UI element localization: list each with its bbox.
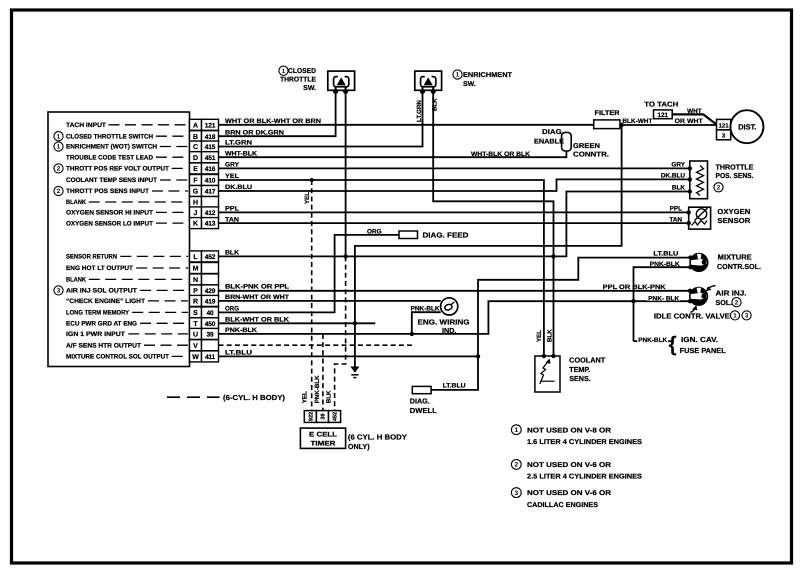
svg-text:450: 450	[205, 321, 216, 328]
svg-text:1: 1	[57, 133, 61, 140]
svg-text:S: S	[193, 310, 198, 317]
wire D WHT-BLK to green connector	[219, 151, 567, 157]
svg-text:B: B	[193, 134, 198, 141]
svg-text:IGN. CAV.: IGN. CAV.	[681, 335, 718, 344]
svg-text:452: 452	[333, 412, 339, 421]
wire G DK.BLU to throttle pos sensor	[219, 179, 690, 191]
svg-text:C: C	[193, 144, 198, 151]
svg-text:A: A	[193, 122, 198, 129]
svg-text:PPL: PPL	[670, 206, 683, 213]
svg-text:2.5 LITER 4 CYLINDER ENGINES: 2.5 LITER 4 CYLINDER ENGINES	[527, 474, 642, 481]
wire mixture solenoid PNK-BLK	[634, 267, 691, 341]
arrow to air inj solenoid	[708, 286, 715, 289]
svg-text:1.6 LITER 4 CYLINDER ENGINES: 1.6 LITER 4 CYLINDER ENGINES	[527, 439, 642, 446]
svg-text:PPL OR BLK-PNK: PPL OR BLK-PNK	[603, 284, 666, 291]
svg-text:SOL.: SOL.	[716, 298, 733, 307]
pin F row: COOLANT TEMP SENS INPUT	[190, 175, 202, 186]
svg-text:417: 417	[205, 189, 216, 196]
svg-text:NOT USED ON V-6 OR: NOT USED ON V-6 OR	[527, 490, 611, 497]
svg-text:BLK-PNK OR PPL: BLK-PNK OR PPL	[225, 284, 289, 291]
pin D row: TROUBLE CODE TEST LEAD	[190, 152, 202, 163]
svg-text:J: J	[194, 210, 198, 217]
idle contr valve label with arrow	[691, 309, 696, 313]
svg-text:121: 121	[657, 112, 668, 119]
wire T BLK-WHT ECU power ground	[219, 322, 376, 324]
svg-text:D: D	[193, 155, 198, 162]
svg-text:A/F SENS HTR OUTPUT: A/F SENS HTR OUTPUT	[66, 342, 141, 349]
wire E GRY to throttle pos sensor	[219, 167, 690, 169]
pin C row: ENRICHMENT (WOT) SWITCH	[190, 141, 202, 152]
svg-text:BLK: BLK	[432, 98, 439, 111]
wire PNK-BLK dashed to E cell timer pin 39	[322, 334, 324, 411]
svg-text:{: {	[669, 333, 677, 356]
svg-text:TIMER: TIMER	[311, 441, 336, 448]
svg-text:1: 1	[514, 427, 518, 434]
svg-text:V: V	[193, 343, 198, 350]
wire closed throttle switch BLK return	[345, 91, 347, 256]
wire L BLK sensor return to TPS	[219, 192, 690, 257]
svg-text:YEL: YEL	[302, 391, 309, 403]
svg-text:LONG TERM MEMORY: LONG TERM MEMORY	[66, 310, 130, 317]
wire lamp PNK-BLK branch	[412, 312, 441, 334]
svg-text:2: 2	[57, 166, 61, 173]
label PNK-BLK (air inj)	[647, 294, 680, 301]
junction diag dwell tap	[476, 354, 480, 358]
svg-text:2: 2	[717, 185, 721, 192]
legend 6-cyl H body dashed	[167, 396, 220, 398]
svg-text:AIR INJ SOL OUTPUT: AIR INJ SOL OUTPUT	[66, 288, 137, 295]
wire filter tap BLK-WHT to ground	[355, 125, 622, 367]
E cell timer pin connector 922/39/452	[304, 411, 316, 423]
junction lamp branch on pin U wire	[410, 332, 414, 336]
svg-text:OXYGEN SENSOR HI INPUT: OXYGEN SENSOR HI INPUT	[66, 210, 153, 217]
svg-text:FILTER: FILTER	[595, 110, 620, 117]
svg-text:M: M	[193, 266, 199, 273]
svg-text:451: 451	[205, 155, 216, 162]
mixture control solenoid	[690, 254, 708, 272]
wire F YEL to coolant temp sensor	[219, 180, 544, 356]
svg-text:3: 3	[57, 288, 61, 295]
svg-text:ONLY): ONLY)	[348, 442, 370, 451]
svg-text:SENSOR: SENSOR	[717, 216, 751, 225]
ground symbol	[350, 367, 359, 373]
ECU connector table outline	[48, 112, 190, 367]
svg-text:SENS.: SENS.	[569, 374, 591, 383]
svg-text:418: 418	[205, 134, 216, 141]
junction closed throttle BLK / sensor return	[343, 254, 347, 258]
svg-text:BLK: BLK	[672, 185, 686, 192]
wire enrichment switch BLK return	[433, 91, 553, 356]
note 1	[511, 425, 521, 435]
svg-text:2: 2	[514, 462, 518, 469]
svg-text:W: W	[192, 354, 199, 361]
svg-text:IND.: IND.	[442, 326, 456, 335]
svg-text:BLK: BLK	[547, 329, 554, 342]
svg-text:413: 413	[205, 221, 216, 228]
pin P row: AIR INJ SOL OUTPUT	[190, 285, 202, 296]
throttle position sensor	[690, 161, 708, 199]
label PNK-BLK (fuse panel)	[637, 336, 668, 343]
wire K TAN to oxygen sensor	[219, 222, 689, 224]
svg-text:DIST.: DIST.	[738, 122, 756, 131]
svg-text:GRY: GRY	[671, 162, 685, 169]
pin B row: CLOSED THROTTLE SWITCH	[190, 131, 202, 142]
closed throttle switch	[328, 71, 355, 90]
distributor DIST.	[730, 110, 763, 143]
label enrichment sw	[453, 70, 462, 79]
wire B BRN to closed throttle switch	[219, 91, 336, 136]
svg-text:SENSOR RETURN: SENSOR RETURN	[66, 254, 117, 261]
svg-text:R: R	[193, 299, 198, 306]
wire P BLK-PNK to air inj solenoid	[219, 290, 690, 292]
svg-text:452: 452	[205, 254, 216, 261]
wire R BRN-WHT to eng wiring indicator	[219, 300, 441, 302]
svg-text:PNK-BLK: PNK-BLK	[650, 261, 680, 268]
wire A BLK-WHT filter to distributor	[620, 124, 717, 126]
svg-text:THROTT POS SENS INPUT: THROTT POS SENS INPUT	[66, 188, 149, 195]
svg-text:BLANK: BLANK	[66, 199, 86, 206]
pin J row: OXYGEN SENSOR HI INPUT	[190, 207, 202, 218]
junction PNK-BLK distribution	[631, 299, 635, 303]
svg-text:DWELL: DWELL	[410, 406, 438, 415]
svg-text:TO TACH: TO TACH	[644, 102, 678, 109]
svg-text:PNK- BLK: PNK- BLK	[648, 295, 679, 302]
svg-text:SW.: SW.	[463, 81, 476, 88]
wire C LT.GRN to enrichment switch	[219, 91, 423, 146]
svg-text:DIAG. FEED: DIAG. FEED	[423, 231, 469, 240]
svg-text:TAN: TAN	[669, 216, 682, 223]
svg-text:CONTR.SOL.: CONTR.SOL.	[717, 262, 761, 271]
pin W row: MIXTURE CONTROL SOL OUTPUT	[190, 351, 202, 362]
wire W LT.BLU mixture control sol output	[219, 258, 691, 357]
svg-text:(6-CYL. H BODY): (6-CYL. H BODY)	[223, 393, 286, 402]
to tach connector 121	[654, 110, 673, 119]
svg-text:419: 419	[205, 299, 216, 306]
svg-text:(6 CYL. H BODY: (6 CYL. H BODY	[348, 433, 407, 442]
svg-text:LT.GRN: LT.GRN	[416, 100, 423, 122]
svg-text:416: 416	[205, 166, 216, 173]
svg-text:COOLANT: COOLANT	[569, 356, 606, 365]
wire to tach WHT	[672, 114, 716, 124]
svg-text:IDLE CONTR. VALVE: IDLE CONTR. VALVE	[654, 312, 730, 321]
svg-text:415: 415	[205, 144, 216, 151]
svg-text:412: 412	[205, 210, 216, 217]
svg-text:F: F	[193, 178, 198, 185]
svg-text:AIR INJ.: AIR INJ.	[716, 289, 747, 298]
svg-text:L: L	[193, 254, 198, 261]
svg-text:ENG HOT LT OUTPUT: ENG HOT LT OUTPUT	[66, 265, 133, 272]
svg-text:POS. SENS.: POS. SENS.	[716, 171, 754, 180]
svg-text:CONNTR.: CONNTR.	[573, 152, 609, 159]
svg-text:U: U	[193, 332, 198, 339]
svg-text:IGN 1 PWR INPUT: IGN 1 PWR INPUT	[66, 331, 125, 338]
svg-text:OXYGEN: OXYGEN	[717, 207, 750, 216]
wire diag dwell branch LT.BLU	[431, 356, 478, 390]
diag feed connector	[399, 231, 418, 239]
svg-text:1: 1	[282, 68, 286, 75]
svg-text:PNK-BLK: PNK-BLK	[314, 375, 321, 403]
svg-text:1: 1	[733, 313, 737, 320]
pin V row: A/F SENS HTR OUTPUT	[190, 340, 202, 351]
filter	[594, 120, 620, 129]
pin U row: IGN 1 PWR INPUT	[190, 328, 202, 339]
svg-text:DK.BLU: DK.BLU	[661, 173, 686, 180]
svg-text:OR WHT: OR WHT	[675, 118, 703, 125]
svg-text:922: 922	[309, 412, 315, 421]
pin E row: THROTT POS REF VOLT OUTPUT	[190, 163, 202, 174]
svg-text:CADILLAC ENGINES: CADILLAC ENGINES	[527, 502, 598, 509]
svg-text:121: 121	[719, 123, 730, 130]
svg-text:PNK-BLK: PNK-BLK	[638, 337, 667, 344]
svg-text:429: 429	[205, 288, 216, 295]
wire BLK dashed to E cell timer pin 452	[335, 256, 346, 410]
junction enrichment BLK / sensor return	[551, 254, 555, 258]
green connector (diag enable)	[562, 132, 572, 151]
pin A row: TACH INPUT	[190, 119, 202, 130]
svg-text:DIAG.: DIAG.	[542, 129, 564, 136]
svg-text:CLOSED THROTTLE SWITCH: CLOSED THROTTLE SWITCH	[66, 133, 153, 140]
note 3	[511, 488, 521, 498]
distributor connector 121/3	[717, 119, 731, 129]
svg-text:T: T	[193, 321, 198, 328]
svg-text:E: E	[193, 166, 198, 173]
oxygen sensor	[689, 207, 711, 229]
junction filter output	[619, 123, 623, 127]
svg-text:GREEN: GREEN	[573, 143, 600, 150]
svg-text:LT.BLU: LT.BLU	[653, 250, 678, 257]
svg-text:P: P	[193, 288, 198, 295]
svg-text:ENRICHMENT: ENRICHMENT	[463, 72, 513, 79]
svg-text:MIXTURE CONTROL SOL OUTPUT: MIXTURE CONTROL SOL OUTPUT	[66, 354, 169, 361]
svg-text:TACH INPUT: TACH INPUT	[66, 122, 106, 129]
svg-text:CLOSED: CLOSED	[288, 68, 316, 75]
svg-text:YEL: YEL	[304, 192, 311, 204]
svg-text:TROUBLE CODE TEST LEAD: TROUBLE CODE TEST LEAD	[66, 154, 153, 161]
svg-text:BLK-WHT: BLK-WHT	[622, 118, 652, 125]
air injection solenoid	[690, 288, 708, 306]
svg-text:YEL: YEL	[536, 330, 543, 342]
svg-text:121: 121	[205, 122, 216, 129]
svg-text:LT.BLU: LT.BLU	[443, 383, 466, 390]
pin K row: OXYGEN SENSOR LO IMPUT	[190, 218, 202, 229]
svg-text:COOLANT TEMP SENS INPUT: COOLANT TEMP SENS INPUT	[66, 177, 157, 184]
svg-text:SW.: SW.	[303, 85, 316, 92]
pin M row: ENG HOT LT OUTPUT	[190, 263, 202, 274]
svg-text:411: 411	[205, 354, 216, 361]
svg-text:TEMP.: TEMP.	[569, 365, 590, 374]
svg-text:FUSE PANEL: FUSE PANEL	[680, 346, 727, 355]
wire A WHT tach lead to filter	[219, 124, 594, 126]
pin H row: BLANK	[190, 197, 202, 208]
svg-text:ECU PWR GRD AT ENG: ECU PWR GRD AT ENG	[66, 321, 137, 328]
svg-text:1: 1	[57, 144, 61, 151]
svg-text:NOT USED ON V-6 OR: NOT USED ON V-6 OR	[527, 462, 611, 469]
junction YEL dashed on pin F wire	[310, 178, 314, 182]
pin R row: “CHECK ENGINE” LIGHT	[190, 295, 202, 306]
wire J PPL to oxygen sensor	[219, 211, 689, 213]
svg-text:G: G	[193, 189, 199, 196]
svg-text:THROTTLE: THROTTLE	[716, 163, 754, 172]
svg-text:“CHECK ENGINE” LIGHT: “CHECK ENGINE” LIGHT	[66, 298, 145, 305]
svg-text:2: 2	[57, 188, 61, 195]
svg-text:ORG: ORG	[367, 228, 382, 235]
svg-text:1: 1	[456, 72, 460, 79]
pin N row: BLANK	[190, 274, 202, 285]
label closed throttle sw	[279, 66, 288, 75]
svg-text:BLK: BLK	[326, 390, 333, 403]
coolant temp sensor	[535, 356, 560, 392]
svg-text:NOT USED ON V-8 OR: NOT USED ON V-8 OR	[527, 427, 611, 434]
svg-text:H: H	[193, 200, 198, 207]
svg-text:2: 2	[735, 299, 739, 306]
pin T row: ECU PWR GRD AT ENG	[190, 318, 202, 329]
svg-text:THROTT POS REF VOLT OUTPUT: THROTT POS REF VOLT OUTPUT	[66, 166, 169, 173]
svg-text:DIAG.: DIAG.	[410, 396, 430, 405]
svg-text:K: K	[193, 221, 198, 228]
svg-text:N: N	[193, 277, 198, 284]
note 2	[511, 460, 521, 470]
pin S row: LONG TERM MEMORY	[190, 307, 202, 318]
svg-text:40: 40	[207, 310, 214, 317]
junction ground line / pin T wire	[353, 321, 357, 325]
svg-text:39: 39	[321, 413, 327, 419]
pin L row: SENSOR RETURN	[190, 251, 202, 262]
wire S ORG to diag feed	[219, 235, 400, 313]
svg-text:MIXTURE: MIXTURE	[718, 252, 752, 261]
wire V A/F sensor heater (dashed)	[219, 344, 412, 346]
svg-text:WHT-BLK OR BLK: WHT-BLK OR BLK	[471, 151, 530, 158]
svg-text:OXYGEN SENSOR LO IMPUT: OXYGEN SENSOR LO IMPUT	[66, 220, 153, 227]
pin G row: THROTT POS SENS INPUT	[190, 186, 202, 197]
svg-text:3: 3	[514, 490, 518, 497]
svg-text:3: 3	[745, 313, 749, 320]
svg-text:THROTTLE: THROTTLE	[280, 77, 316, 84]
svg-text:WHT: WHT	[687, 108, 702, 115]
svg-text:410: 410	[205, 178, 216, 185]
svg-text:PNK-BLK: PNK-BLK	[411, 306, 440, 313]
svg-text:39: 39	[207, 332, 214, 339]
diag dwell connector	[412, 386, 431, 393]
enrichment switch	[415, 71, 442, 90]
wire PNK-BLK to ign cav fuse panel	[634, 340, 672, 342]
svg-text:E CELL: E CELL	[309, 432, 337, 439]
svg-text:BLANK: BLANK	[66, 277, 86, 284]
wire U PNK-BLK ignition feed	[219, 301, 690, 334]
E cell timer box	[300, 428, 345, 448]
svg-text:ENRICHMENT (WOT) SWITCH: ENRICHMENT (WOT) SWITCH	[66, 144, 157, 151]
wire YEL dashed to E cell timer pin 922	[311, 180, 313, 411]
svg-text:ENABLE: ENABLE	[534, 139, 564, 146]
eng wiring indicator lamp	[441, 298, 458, 315]
